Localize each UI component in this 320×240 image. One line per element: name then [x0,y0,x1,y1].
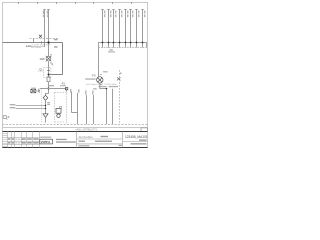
wire below lamp with jog [100,83,107,124]
breaker Q1 label underline [38,71,44,73]
drawing area bottom margin line [3,127,148,129]
bank wire 4 with terminal dot [118,10,122,48]
company text line 2 [56,141,76,142]
N branch label [10,104,16,105]
horizontal feeder bus wire [3,42,63,44]
bank wire 1 with terminal dot [101,10,105,48]
svg-text:05.02.08: 05.02.08 [15,143,24,145]
socket label [31,88,36,89]
bank wire 3 with terminal dot [112,10,116,48]
wire name text left of junction [49,85,54,86]
title middle text 2 [79,141,86,142]
fuse F1 body [47,77,50,82]
junction dot bus / N wire [47,41,49,43]
wire N entry tick [47,9,49,11]
title middle hline 1 [77,138,123,140]
title block top line [3,131,148,133]
wire B vertical [77,93,79,124]
jog junction to diamond [46,94,49,96]
wire N below fuse [48,82,50,94]
wire L1 name label [43,11,44,14]
kWh pin label top [50,54,52,55]
wire C label [85,90,86,94]
kWh pin label bottom [50,62,52,63]
bus terminal tick up [33,38,35,42]
wire L1 stub below bus [44,43,46,48]
title block bottom line [3,147,148,149]
branch wire to socket [40,88,67,90]
lamp F0 circle [97,77,103,83]
earth triangle [43,114,48,118]
svg-text:Stromlaufplan: Stromlaufplan [79,136,94,139]
cable X symbol right [117,77,121,80]
svg-text:05.05.08: 05.05.08 [15,139,24,141]
cable designation text row 2 [99,86,107,87]
wire A vertical [71,92,73,113]
F2 terminal tick [66,90,68,91]
wire C vertical [86,95,88,124]
right cell text [139,139,147,140]
right cell hline [123,141,148,143]
contactor F2 sub text [60,85,66,86]
bus pin label lower right [54,46,58,48]
dashed separator line [3,124,148,126]
svg-text:-X0: -X0 [109,48,114,52]
cable X symbol [39,35,42,38]
wire X0 to lamp [98,48,100,77]
N branch line [16,105,46,107]
dotted cable line left [41,89,43,123]
motor starter pin text [59,107,61,109]
bank wire 8 with terminal dot [141,10,145,48]
wire A label [70,89,71,93]
terminal strip sub text [108,51,115,52]
bank wire 7 with terminal dot [135,10,139,48]
rotation symbol text [8,116,10,118]
rotation symbol left edge [3,115,7,119]
frame column ticks [19,2,132,4]
bypass loop bottom horizontal [49,74,63,76]
motor starter body [56,108,61,113]
lamp pin tick bottom [100,84,102,86]
breaker Q1 pin text [52,63,53,65]
svg-text:VOITH: VOITH [41,140,50,144]
wire below diamond [45,100,47,113]
title middle small text bottom [79,145,90,146]
stub below earth [45,117,47,122]
bank wire 2 with terminal dot [107,10,111,48]
title divider 1 [76,132,78,148]
wire L1 vertical [44,10,46,43]
svg-text:-F2: -F2 [61,81,65,85]
drawing frame outer border [3,3,148,148]
junction dot PE branch [48,88,50,90]
wire D label [92,90,93,94]
PE diamond [43,95,48,100]
F2 device dashed box [55,91,67,125]
interruption point underline [26,45,44,47]
svg-text:=ANL+ORT/BLATT.1: =ANL+ORT/BLATT.1 [75,128,98,131]
title middle band1 right text [101,136,109,137]
svg-text:-Q1: -Q1 [38,68,43,72]
N branch junction dot [45,105,46,106]
svg-text:kWh: kWh [40,58,46,61]
revision cell texts row1 [8,138,39,139]
svg-text:-F0: -F0 [92,74,97,78]
logo upper text [40,137,51,138]
text right of diamond [47,102,50,103]
PE branch label [10,107,16,108]
wire L1 entry tick [43,9,45,11]
bank wire 6 with terminal dot [129,10,133,48]
title middle band2 right text [95,141,112,142]
dashed cable line crossing feeders [30,38,59,40]
lamp pin text top [103,71,108,72]
breaker contact tick [47,70,50,72]
wire L1 name label 2 [43,15,44,18]
motor starter circle [57,114,60,117]
bus pin label upper right [54,39,58,41]
F2 terminal block [65,88,67,90]
revision cell texts row2 [8,142,39,143]
company text line 1 [56,139,67,140]
revision table rows [3,138,40,145]
cable number text [120,72,122,74]
lamp F0 sub text [85,78,95,79]
cable dashed vertical [119,70,121,124]
wire N name label 2 [47,15,48,18]
PE branch junction dot [45,108,46,109]
svg-text:123456_MA101: 123456_MA101 [125,135,148,139]
socket stub wire [36,89,39,92]
title divider 2 [122,132,124,148]
bank wire 5 with terminal dot [124,10,128,48]
title middle text 3 [131,143,147,144]
wire B label [78,89,79,93]
pin text below lamp [93,88,96,89]
revision history mini rows [3,134,8,147]
wire D vertical [93,95,95,124]
plug connector chevron [39,90,40,93]
kWh meter U1 [46,56,52,62]
wire N below meter [48,61,50,77]
revision table verticals [8,132,40,148]
terminal strip X0 bottom dashed [99,47,147,49]
wire F vertical [112,89,114,124]
page number box [141,128,148,131]
logo box [40,139,53,144]
title middle hline 2 [77,143,123,145]
bypass loop right vertical [62,43,64,75]
wire A-B jog [72,112,78,114]
lamp pin tick top [100,73,102,75]
socket X1 box with X [31,89,36,93]
svg-text:3x1.5qmm: 3x1.5qmm [31,47,41,49]
junction dot loop rejoin [48,74,50,76]
breaker Q1 dashed outline [44,68,51,78]
bus terminal tick down [41,41,43,43]
wire N name label [47,11,48,14]
PE branch line [16,108,46,110]
terminal strip X0 box [99,43,147,48]
wire N vertical [48,10,50,57]
